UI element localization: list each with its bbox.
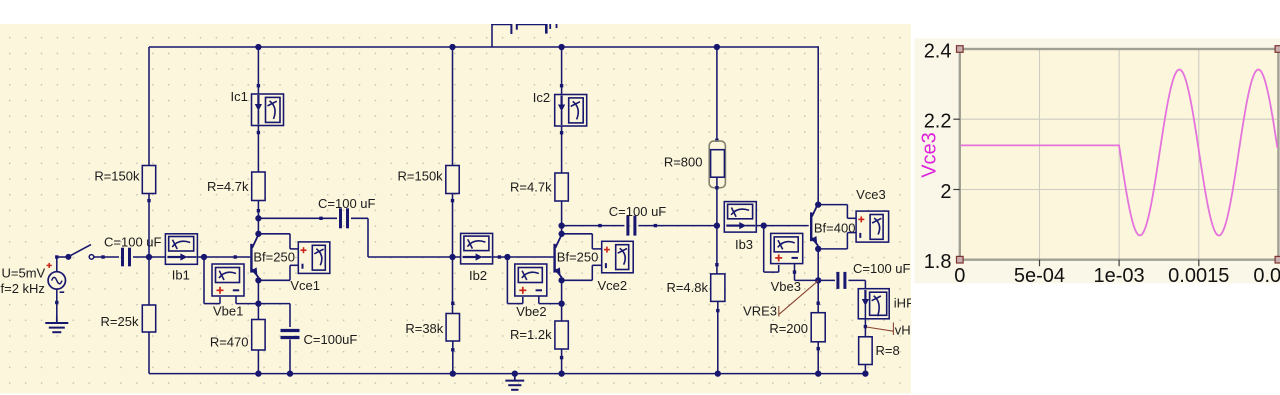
svg-text:Bf=250: Bf=250 <box>557 249 599 264</box>
svg-text:R=200: R=200 <box>769 321 808 336</box>
svg-text:Vce2: Vce2 <box>598 278 628 293</box>
svg-text:0: 0 <box>954 265 965 287</box>
svg-text:R=800: R=800 <box>664 155 703 170</box>
svg-text:1.8: 1.8 <box>924 251 952 273</box>
svg-text:R=25k: R=25k <box>101 314 139 329</box>
svg-text:C=100uF: C=100uF <box>304 332 358 347</box>
svg-text:R=4.8k: R=4.8k <box>666 280 708 295</box>
svg-text:Bf=250: Bf=250 <box>253 249 295 264</box>
svg-text:2.2: 2.2 <box>924 111 952 133</box>
svg-text:Vbe1: Vbe1 <box>213 304 243 319</box>
svg-text:1e-03: 1e-03 <box>1094 265 1145 287</box>
svg-text:R=4.7k: R=4.7k <box>207 179 249 194</box>
svg-text:Vbe2: Vbe2 <box>516 304 546 319</box>
svg-text:R=470: R=470 <box>210 335 249 350</box>
svg-text:R=38k: R=38k <box>405 321 443 336</box>
svg-text:R=1.2k: R=1.2k <box>510 327 552 342</box>
svg-text:0.002: 0.002 <box>1253 265 1280 287</box>
svg-text:C=100 uF: C=100 uF <box>853 261 911 276</box>
svg-text:Ic2: Ic2 <box>533 90 550 105</box>
svg-text:f=2 kHz: f=2 kHz <box>1 281 45 296</box>
svg-text:Vce3: Vce3 <box>856 187 886 202</box>
svg-text:0.0015: 0.0015 <box>1168 265 1229 287</box>
svg-text:5e-04: 5e-04 <box>1014 265 1065 287</box>
svg-text:R=150k: R=150k <box>398 169 444 184</box>
svg-text:C=100 uF: C=100 uF <box>104 235 162 250</box>
svg-text:2.4: 2.4 <box>924 40 952 62</box>
svg-text:Ib3: Ib3 <box>735 237 753 252</box>
svg-text:R=8: R=8 <box>876 343 900 358</box>
svg-text:Ib2: Ib2 <box>469 268 487 283</box>
svg-text:Ic1: Ic1 <box>231 89 248 104</box>
svg-text:C=100 uF: C=100 uF <box>609 204 667 219</box>
svg-text:U=5mV: U=5mV <box>2 266 46 281</box>
svg-text:2: 2 <box>940 181 951 203</box>
svg-text:VRE3: VRE3 <box>743 303 777 318</box>
svg-text:R=150k: R=150k <box>94 169 140 184</box>
svg-text:Vbe3: Vbe3 <box>771 279 801 294</box>
svg-text:R=4.7k: R=4.7k <box>510 180 552 195</box>
svg-text:Vce1: Vce1 <box>290 278 320 293</box>
svg-text:C=100 uF: C=100 uF <box>318 196 376 211</box>
svg-text:Ib1: Ib1 <box>172 268 190 283</box>
svg-text:Vce3: Vce3 <box>919 132 941 178</box>
